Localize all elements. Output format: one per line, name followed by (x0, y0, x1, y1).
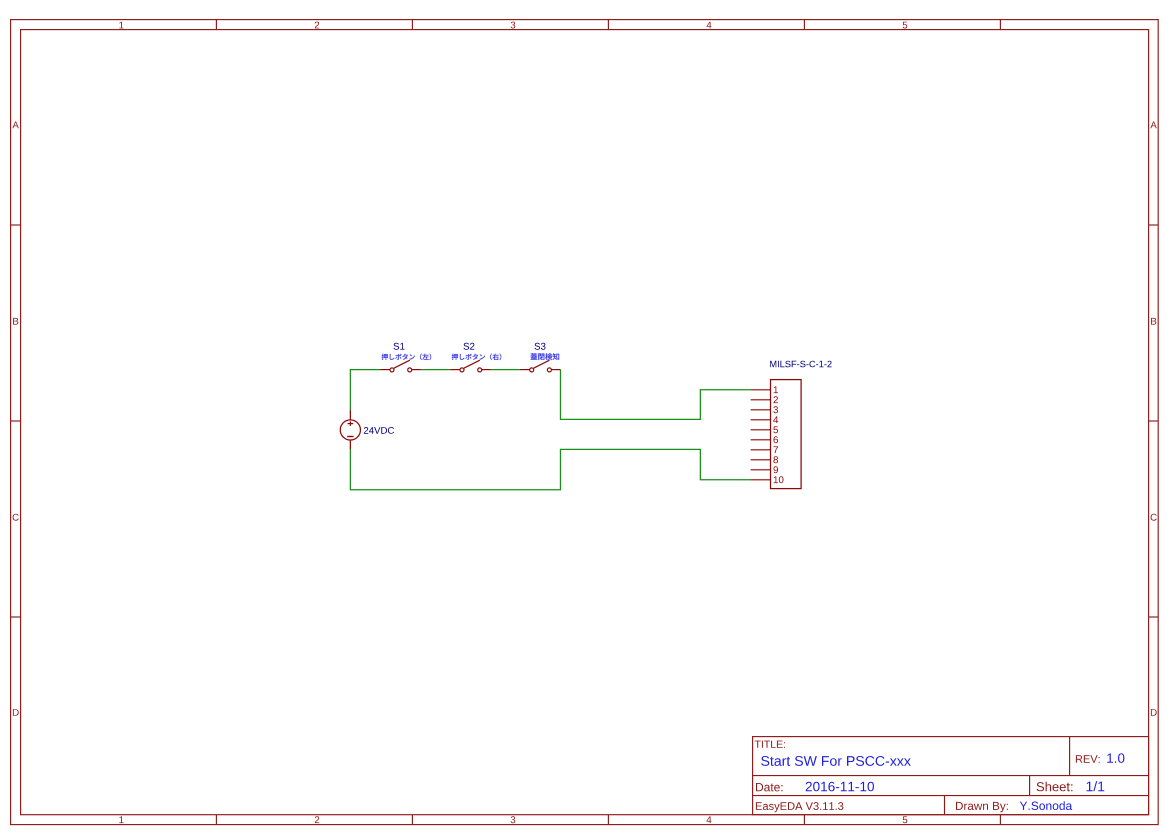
switch S3 label 蓋閉検知 (531, 353, 560, 360)
switch S3 reference designator (535, 343, 546, 350)
voltage source value label 24VDC (364, 427, 394, 434)
switch S3 (520, 360, 561, 372)
wire: source - to connector pin 10 (350, 449, 750, 489)
switch S1 reference designator (394, 343, 405, 350)
connector pin 9 (751, 466, 778, 473)
connector pin 5 (751, 426, 778, 433)
connector MILSF-S-C-1-2 name label (770, 361, 831, 368)
connector pin 1 (751, 386, 778, 393)
tool version EasyEDA V3.11.3 (756, 802, 844, 812)
switch S2 reference designator (464, 343, 475, 350)
voltage source 24VDC (340, 410, 360, 449)
date value 2016-11-10 (806, 782, 874, 792)
connector pin 7 (751, 446, 778, 453)
connector pin 10 (751, 476, 784, 483)
connector pin 2 (751, 396, 778, 403)
connector pin 6 (751, 436, 778, 443)
sheet value 1/1 (1087, 781, 1105, 791)
title block label TITLE: (755, 741, 785, 748)
wire: source + up to S1 (350, 370, 380, 410)
switch S2 label 押しボタン（右） (452, 354, 502, 361)
title block label Date: (756, 783, 783, 791)
wire: S2 to S3 (491, 369, 520, 371)
switch S1 (380, 360, 421, 372)
title block (753, 737, 1149, 815)
switch S1 label 押しボタン（左） (382, 354, 432, 361)
title text Start SW For PSCC-xxx (761, 756, 911, 766)
wire: S1 to S2 (421, 369, 450, 371)
connector pin 4 (751, 416, 779, 423)
revision value 1.0 (1107, 753, 1124, 763)
connector body (771, 380, 802, 489)
wire: S3 to connector pin 1 (560, 370, 750, 420)
switch S2 (450, 360, 491, 372)
title block label Drawn By: (956, 802, 1008, 812)
drawn by value Y.Sonoda (1020, 801, 1072, 810)
connector pin 8 (751, 456, 778, 463)
title block label REV: (1076, 755, 1100, 763)
title block label Sheet: (1037, 782, 1073, 792)
connector pin 3 (751, 406, 778, 413)
